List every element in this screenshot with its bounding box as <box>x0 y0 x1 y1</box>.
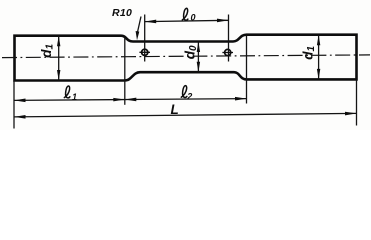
d1 left dimension <box>58 36 60 81</box>
gauge mark left <box>142 49 148 55</box>
l0 dimension line <box>145 20 229 21</box>
label l2 <box>181 86 187 98</box>
extension line left shoulder <box>124 38 126 105</box>
label l0 <box>182 8 188 20</box>
specimen outline <box>15 35 357 81</box>
svg-text:2: 2 <box>186 92 192 102</box>
extension line right end <box>356 79 358 125</box>
d0 dimension <box>197 42 199 73</box>
svg-text:d0: d0 <box>183 45 200 59</box>
svg-text:d1: d1 <box>39 43 56 57</box>
extension line right shoulder <box>246 36 248 104</box>
label l1 <box>64 86 70 98</box>
l2 dimension line <box>125 98 247 101</box>
svg-text:d1: d1 <box>301 45 318 59</box>
centerline <box>2 55 370 58</box>
L dimension line <box>14 113 357 117</box>
svg-text:0: 0 <box>191 13 196 23</box>
svg-text:R10: R10 <box>112 7 132 19</box>
d1 right dimension <box>318 35 320 80</box>
svg-text:1: 1 <box>72 92 77 102</box>
l1 dimension line <box>14 99 125 102</box>
gauge mark right <box>225 49 231 55</box>
l0 extension left <box>144 15 146 62</box>
svg-text:L: L <box>171 102 179 117</box>
extension line left end <box>13 81 15 129</box>
l0 extension right <box>228 15 230 62</box>
R10 leader <box>137 17 141 34</box>
